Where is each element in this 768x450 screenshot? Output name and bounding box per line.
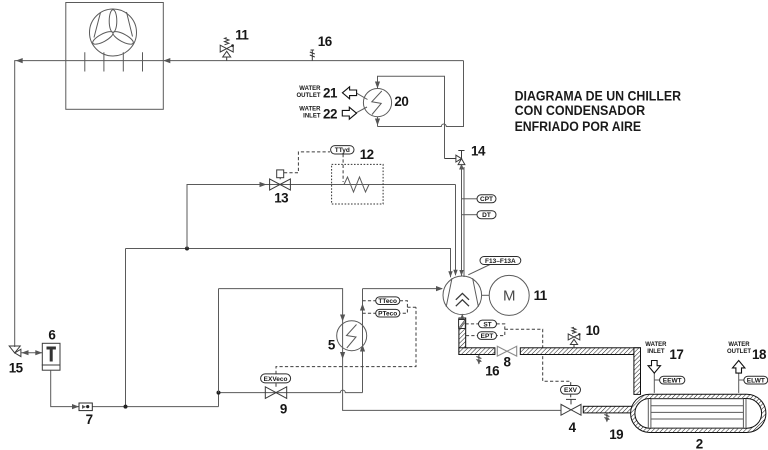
wire: EXVeco branch y=392.6 with jumper xyxy=(219,390,363,406)
compressor 10 xyxy=(443,276,482,315)
svg-text:16: 16 xyxy=(318,34,332,49)
wire: main top line into condenser xyxy=(15,61,464,347)
svg-text:WATER: WATER xyxy=(299,107,321,113)
svg-text:16: 16 xyxy=(485,363,499,378)
svg-text:10: 10 xyxy=(586,323,600,338)
schrader port 16 (top line) xyxy=(310,50,315,61)
svg-text:21: 21 xyxy=(323,85,338,100)
control line ST/EPT to EXV (behind pipes) xyxy=(497,324,571,386)
evaporator tank 2 xyxy=(631,394,766,432)
motor 11 xyxy=(482,294,490,296)
liquid pipe to evaporator (hatched) xyxy=(583,406,636,413)
wire: branch up to valve 13 line xyxy=(187,185,456,276)
svg-text:5: 5 xyxy=(328,338,336,353)
wire: discharge from valve 14 down to compressor xyxy=(461,166,463,276)
valve 13 with actuator xyxy=(270,170,291,190)
expansion valve 4 xyxy=(561,399,581,415)
svg-text:WATER: WATER xyxy=(299,86,321,92)
tube bundle xyxy=(648,399,746,428)
svg-text:TTeco: TTeco xyxy=(378,298,397,305)
svg-text:19: 19 xyxy=(609,427,623,442)
wire to filter drier xyxy=(21,352,42,354)
junction node xyxy=(185,247,189,251)
wire: HX20 bottom return with jumper xyxy=(378,61,464,127)
heater element zigzag xyxy=(340,177,373,192)
svg-text:11: 11 xyxy=(534,288,548,303)
svg-text:M: M xyxy=(503,287,516,304)
ELWT tag xyxy=(739,379,745,381)
valve 9 EXVeco xyxy=(265,383,286,398)
EEWT tag xyxy=(654,379,660,381)
suction pipe to evaporator (hatched) xyxy=(520,348,640,355)
TTeco tag xyxy=(363,300,376,302)
schrader port 19 xyxy=(604,413,609,422)
DT tag xyxy=(462,214,478,216)
relief valve 11 xyxy=(220,38,233,61)
economizer HX 5 xyxy=(337,321,367,351)
svg-text:18: 18 xyxy=(752,347,767,362)
svg-text:F13–F13A: F13–F13A xyxy=(485,258,516,265)
service valve 8 xyxy=(497,346,516,356)
PTeco tag xyxy=(363,312,376,314)
svg-text:EXVeco: EXVeco xyxy=(264,376,288,383)
condenser box (air cooled condenser) xyxy=(66,3,164,110)
svg-text:11: 11 xyxy=(235,28,249,43)
flow sensor box xyxy=(459,320,466,329)
EPT tag xyxy=(466,335,478,337)
svg-text:7: 7 xyxy=(86,412,93,427)
filter drier 6 xyxy=(42,343,60,370)
svg-text:EXV: EXV xyxy=(564,387,578,394)
ST tag xyxy=(466,323,479,325)
svg-text:CPT: CPT xyxy=(480,196,493,203)
control line TTyd to valve 13 xyxy=(284,152,330,173)
heat exchanger 20 (desuperheater) xyxy=(363,89,391,117)
arrow into condenser xyxy=(163,58,170,63)
condenser coil ticks xyxy=(85,52,143,71)
wire: economizer liquid feed y=288.6 xyxy=(219,289,562,411)
svg-text:ENFRIADO POR AIRE: ENFRIADO POR AIRE xyxy=(515,119,642,135)
svg-text:22: 22 xyxy=(323,106,337,121)
wire: liquid line y=248.5 to compressor xyxy=(126,249,451,278)
wire: drier down and right xyxy=(51,370,219,406)
svg-text:17: 17 xyxy=(669,347,683,362)
shut-off valve 15 xyxy=(9,346,21,357)
svg-text:14: 14 xyxy=(471,144,486,159)
svg-text:EEWT: EEWT xyxy=(663,378,682,385)
svg-text:13: 13 xyxy=(274,191,288,206)
EXV tag xyxy=(561,386,581,395)
junction node xyxy=(124,405,128,409)
suction arrow into compressor xyxy=(461,316,463,318)
angle valve 14 xyxy=(445,151,465,165)
wire: left vertical liquid drop xyxy=(125,249,127,407)
svg-text:4: 4 xyxy=(569,420,577,435)
wire: suction from HX5 to compressor xyxy=(363,288,443,290)
suction pipe from compressor (hatched L) xyxy=(459,318,466,355)
svg-text:EPT: EPT xyxy=(481,333,494,340)
svg-text:PTeco: PTeco xyxy=(378,311,397,318)
svg-text:ELWT: ELWT xyxy=(747,378,765,385)
svg-text:WATER: WATER xyxy=(645,342,667,348)
svg-text:WATER: WATER xyxy=(728,342,750,348)
wire: HX20 top feed xyxy=(378,76,445,158)
svg-text:6: 6 xyxy=(48,327,55,342)
arrow at left corner xyxy=(16,58,23,63)
svg-text:ST: ST xyxy=(483,321,491,328)
svg-text:INLET: INLET xyxy=(647,349,665,355)
CPT tag xyxy=(462,198,478,200)
TTyd tag xyxy=(342,154,344,182)
sight glass 7 xyxy=(79,403,92,411)
svg-text:8: 8 xyxy=(504,354,512,369)
water inlet arrow 22 xyxy=(356,107,368,113)
svg-text:15: 15 xyxy=(9,360,24,375)
svg-text:2: 2 xyxy=(696,436,703,450)
F13-F13A tag xyxy=(468,265,490,275)
wire: HX5 right stream up to suction xyxy=(362,289,364,393)
svg-text:INLET: INLET xyxy=(303,114,321,120)
svg-text:12: 12 xyxy=(360,147,374,162)
water outlet arrow 21 xyxy=(356,93,368,100)
svg-text:OUTLET: OUTLET xyxy=(727,349,751,355)
svg-text:TTyd: TTyd xyxy=(335,147,350,154)
svg-text:OUTLET: OUTLET xyxy=(297,93,321,99)
svg-text:DT: DT xyxy=(482,212,491,219)
fan xyxy=(90,9,137,56)
superheater box 12 xyxy=(332,164,384,204)
svg-text:20: 20 xyxy=(394,94,408,109)
control bracket to EXVeco line xyxy=(400,301,416,314)
svg-text:CON CONDENSADOR: CON CONDENSADOR xyxy=(515,103,646,119)
EXVeco tag xyxy=(261,374,291,383)
svg-text:9: 9 xyxy=(280,401,287,416)
relief valve 10 xyxy=(568,327,580,348)
control line EXVeco xyxy=(276,307,416,374)
schrader port 16 (suction) xyxy=(476,355,481,365)
